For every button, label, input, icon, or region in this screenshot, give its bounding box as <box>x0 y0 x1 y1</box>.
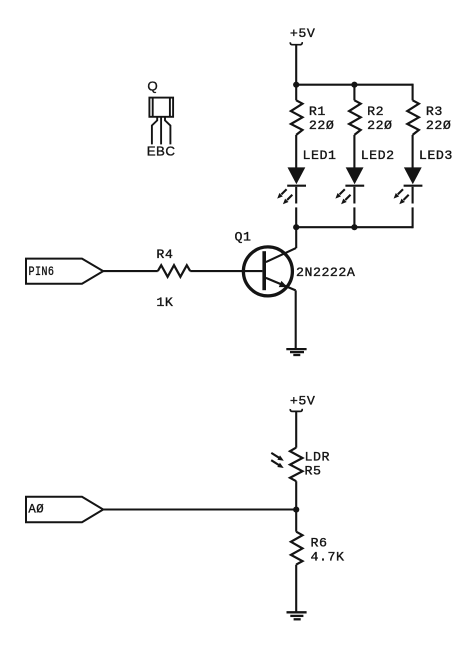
LED LED2 symbol <box>345 167 364 185</box>
wire R6 to ground <box>295 565 297 613</box>
wire R3 to LED3 <box>412 135 414 168</box>
wire LED2 pin <box>353 187 355 204</box>
resistor R1 <box>291 100 303 135</box>
junction node at R2 top <box>351 82 357 88</box>
wire LED2 to bottom rail <box>353 207 355 227</box>
LED LED3 symbol <box>404 167 423 185</box>
wire +5V to LDR R5 <box>295 411 297 447</box>
LED2 emission arrows <box>335 189 350 204</box>
svg-text:AØ: AØ <box>28 502 44 517</box>
junction node at R1 top <box>293 82 299 88</box>
svg-text:LED1: LED1 <box>303 148 337 163</box>
svg-text:LED2: LED2 <box>361 148 395 163</box>
svg-text:2N2222A: 2N2222A <box>296 265 355 280</box>
svg-text:R5: R5 <box>305 463 322 478</box>
transistor Q1 circle <box>243 247 292 296</box>
net flag PIN6 <box>26 259 103 284</box>
svg-text:R3: R3 <box>426 104 443 119</box>
power +5V symbol (top) <box>290 42 302 45</box>
svg-text:LED3: LED3 <box>419 148 453 163</box>
transistor Q1 emitter lead <box>266 278 296 291</box>
transistor Q1 emitter arrow <box>279 281 288 287</box>
net flag A0 <box>26 497 103 522</box>
svg-text:1K: 1K <box>156 295 173 310</box>
wire rail to Q1 collector <box>295 227 297 248</box>
wire LED3 pin <box>412 187 414 204</box>
wire LED1 pin <box>295 187 297 204</box>
transistor Q1 base bar <box>262 251 266 290</box>
svg-text:R2: R2 <box>367 104 384 119</box>
svg-text:22Ø: 22Ø <box>426 118 451 133</box>
junction node LED2 bottom <box>351 224 357 230</box>
wire bottom rail <box>296 226 412 228</box>
wire LED3 to bottom rail <box>412 207 414 228</box>
resistor R6 <box>291 532 303 565</box>
wire +5V to top rail <box>295 45 297 85</box>
svg-text:EBC: EBC <box>147 143 176 158</box>
wire rail to R2 <box>353 85 355 101</box>
svg-text:R6: R6 <box>311 535 328 550</box>
junction node A0 <box>293 507 299 513</box>
svg-text:Q1: Q1 <box>235 230 252 245</box>
LED LED1 symbol <box>287 167 306 185</box>
LED1 emission arrows <box>277 189 292 204</box>
resistor R3 <box>407 100 419 135</box>
svg-text:4.7K: 4.7K <box>311 550 345 565</box>
wire top rail <box>296 84 412 86</box>
wire R1 to LED1 <box>295 135 297 168</box>
wire rail corner to R3 <box>412 84 414 101</box>
junction node LED1 bottom <box>293 224 299 230</box>
power +5V symbol (bottom) <box>290 409 302 412</box>
svg-text:LDR: LDR <box>305 449 330 464</box>
wire LED1 to bottom rail <box>295 207 297 227</box>
LDR incident light arrows <box>271 453 284 468</box>
wire LDR to node A0 <box>295 481 297 532</box>
wire A0 flag to junction <box>103 508 296 510</box>
svg-text:PIN6: PIN6 <box>29 264 55 279</box>
ground (bottom) <box>287 612 307 619</box>
resistor R4 <box>158 265 190 277</box>
svg-text:+5V: +5V <box>290 393 315 408</box>
resistor R2 <box>349 100 361 135</box>
transistor package Q pins <box>152 117 171 145</box>
LDR R5 (photoresistor zigzag) <box>290 448 303 482</box>
svg-text:+5V: +5V <box>290 26 315 41</box>
wire R4 to Q1 base <box>190 270 262 272</box>
svg-text:R1: R1 <box>309 104 326 119</box>
transistor package Q body (TO-92 front view) <box>149 98 173 117</box>
wire R2 to LED2 <box>353 135 355 168</box>
LED3 emission arrows <box>394 189 409 204</box>
transistor Q1 collector lead <box>266 248 296 262</box>
wire emitter to ground <box>295 290 297 349</box>
wire rail to R1 <box>295 85 297 101</box>
svg-text:22Ø: 22Ø <box>367 118 392 133</box>
wire PIN6 to R4 <box>103 270 158 272</box>
svg-text:Q: Q <box>147 79 158 94</box>
ground at Q1 emitter <box>286 349 306 355</box>
svg-text:R4: R4 <box>156 247 173 262</box>
svg-text:22Ø: 22Ø <box>309 118 334 133</box>
